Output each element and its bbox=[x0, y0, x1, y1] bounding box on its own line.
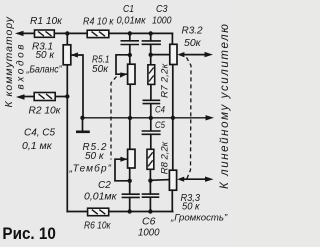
svg-text:50 к: 50 к bbox=[182, 202, 201, 213]
svg-text:С5: С5 bbox=[155, 120, 166, 131]
resistor R2 10k bbox=[34, 93, 55, 101]
node dot R2 bbox=[65, 94, 69, 98]
svg-text:С1: С1 bbox=[123, 3, 134, 15]
node dot C3 bottom bbox=[149, 53, 153, 57]
capacitor C4 bbox=[143, 100, 161, 103]
wire R5.1 wiper loop bbox=[116, 55, 130, 74]
svg-text:С4: С4 bbox=[155, 105, 165, 116]
wire left rail bbox=[66, 33, 68, 45]
wiper arrow R5.1 bbox=[120, 72, 128, 77]
node dot mid R3.2/R3.3 bbox=[171, 116, 175, 120]
svg-text:С3: С3 bbox=[156, 3, 168, 15]
wire R3.1 wiper to ground bbox=[72, 55, 83, 118]
svg-text:0,01мк: 0,01мк bbox=[84, 191, 118, 203]
svg-text:Рис. 10: Рис. 10 bbox=[2, 224, 56, 243]
wire R3.2 wiper output bbox=[184, 54, 207, 56]
svg-text:0,01мк: 0,01мк bbox=[117, 16, 147, 27]
dashed gang link R5.1-R5.2 bbox=[111, 77, 117, 160]
node dot C1 top bbox=[128, 31, 132, 35]
wire top rail bbox=[22, 32, 172, 34]
dashed gang link R3.2-R3.3 bbox=[186, 58, 191, 181]
capacitor C6 bbox=[142, 194, 160, 197]
wire column C3/R7/C4/C5/R8/C6 bbox=[150, 33, 152, 40]
svg-text:0,1 мк: 0,1 мк bbox=[22, 140, 53, 152]
node dot ground tap bbox=[80, 116, 84, 120]
wire column C1/R5.1/R5.2/C2 bbox=[129, 33, 131, 40]
node dot R1/R3.1 bbox=[65, 31, 69, 35]
wire C3 node to R3.2 left bbox=[151, 54, 170, 56]
svg-text:„Баланс”: „Баланс” bbox=[26, 65, 63, 76]
wire R3.3 wiper output bbox=[184, 178, 208, 180]
resistor R8 2.2k vertical bbox=[147, 149, 154, 169]
node dot R5.2 bottom bbox=[128, 179, 132, 183]
node dot R8 bottom bbox=[148, 178, 152, 182]
wire mid ground rail bbox=[83, 117, 208, 119]
svg-text:R4 10 к: R4 10 к bbox=[83, 16, 114, 28]
wiper arrow R5.2 bbox=[120, 157, 127, 162]
capacitor C2 bbox=[122, 194, 140, 197]
input arrow bottom bbox=[16, 94, 25, 99]
node dot C3 top bbox=[149, 31, 153, 35]
ground bbox=[76, 118, 90, 132]
resistor R7 2.2k vertical bbox=[148, 65, 155, 85]
node dot C1 bottom bbox=[128, 53, 132, 57]
node dot C2 bottom bbox=[128, 209, 132, 213]
wiper arrow R3.2 bbox=[177, 52, 184, 57]
capacitor C3 bbox=[142, 41, 161, 44]
wire column R3.2/R3.3 bbox=[172, 64, 174, 170]
svg-text:R1 10к: R1 10к bbox=[30, 15, 63, 27]
svg-text:R3.2: R3.2 bbox=[182, 26, 204, 37]
wiper arrow R3.3 bbox=[177, 177, 184, 182]
svg-text:К линейному усилителю: К линейному усилителю bbox=[219, 22, 231, 189]
svg-text:R7 2,2к: R7 2,2к bbox=[159, 63, 170, 97]
resistor R4 10k bbox=[87, 30, 109, 37]
potentiometer R5.2 tembr bbox=[128, 149, 135, 168]
svg-text:50к: 50к bbox=[184, 37, 202, 49]
svg-text:„Громкость”: „Громкость” bbox=[170, 213, 228, 224]
potentiometer R3.1 balance bbox=[63, 45, 71, 65]
svg-text:50 к: 50 к bbox=[36, 50, 56, 61]
node dot C4/C5 bbox=[149, 116, 153, 120]
output arrow 3 bbox=[205, 177, 214, 182]
capacitor C1 bbox=[121, 41, 140, 45]
svg-text:„Тембр”: „Тембр” bbox=[69, 163, 112, 175]
svg-text:R6 10к: R6 10к bbox=[84, 221, 111, 232]
wire R2 input line bbox=[22, 96, 34, 98]
potentiometer R3.2 bbox=[170, 44, 177, 64]
node dot C6 bottom bbox=[148, 209, 152, 213]
capacitor C5 bbox=[142, 131, 161, 134]
svg-text:R2 10к: R2 10к bbox=[29, 105, 62, 117]
wire R5.2 wiper loop bbox=[115, 159, 130, 181]
wire top-right corner down to R3.2 bbox=[171, 33, 173, 44]
svg-text:1000: 1000 bbox=[138, 227, 160, 239]
svg-text:50 к: 50 к bbox=[85, 151, 105, 162]
wire R8 node to R3.3 left bbox=[150, 179, 169, 182]
input arrow top bbox=[15, 31, 24, 36]
potentiometer R3.3 volume bbox=[169, 170, 176, 190]
svg-text:К коммутатору: К коммутатору bbox=[3, 16, 15, 107]
output arrow 1 bbox=[205, 52, 214, 57]
output arrow 2 (common) bbox=[206, 115, 215, 120]
potentiometer R5.1 bbox=[128, 64, 135, 84]
wire bottom rail bbox=[67, 211, 172, 213]
svg-text:50к: 50к bbox=[92, 64, 109, 75]
svg-text:С2: С2 bbox=[98, 180, 111, 191]
svg-text:1000: 1000 bbox=[152, 16, 172, 27]
wiper arrow R3.1 bbox=[71, 52, 78, 57]
node dot R5.1 bottom rail bbox=[128, 116, 132, 120]
resistor R6 10k bbox=[88, 208, 109, 216]
svg-text:С4, С5: С4, С5 bbox=[24, 127, 55, 139]
resistor R1 10k bbox=[35, 30, 55, 37]
svg-text:R8 2,2к: R8 2,2к bbox=[159, 141, 170, 174]
